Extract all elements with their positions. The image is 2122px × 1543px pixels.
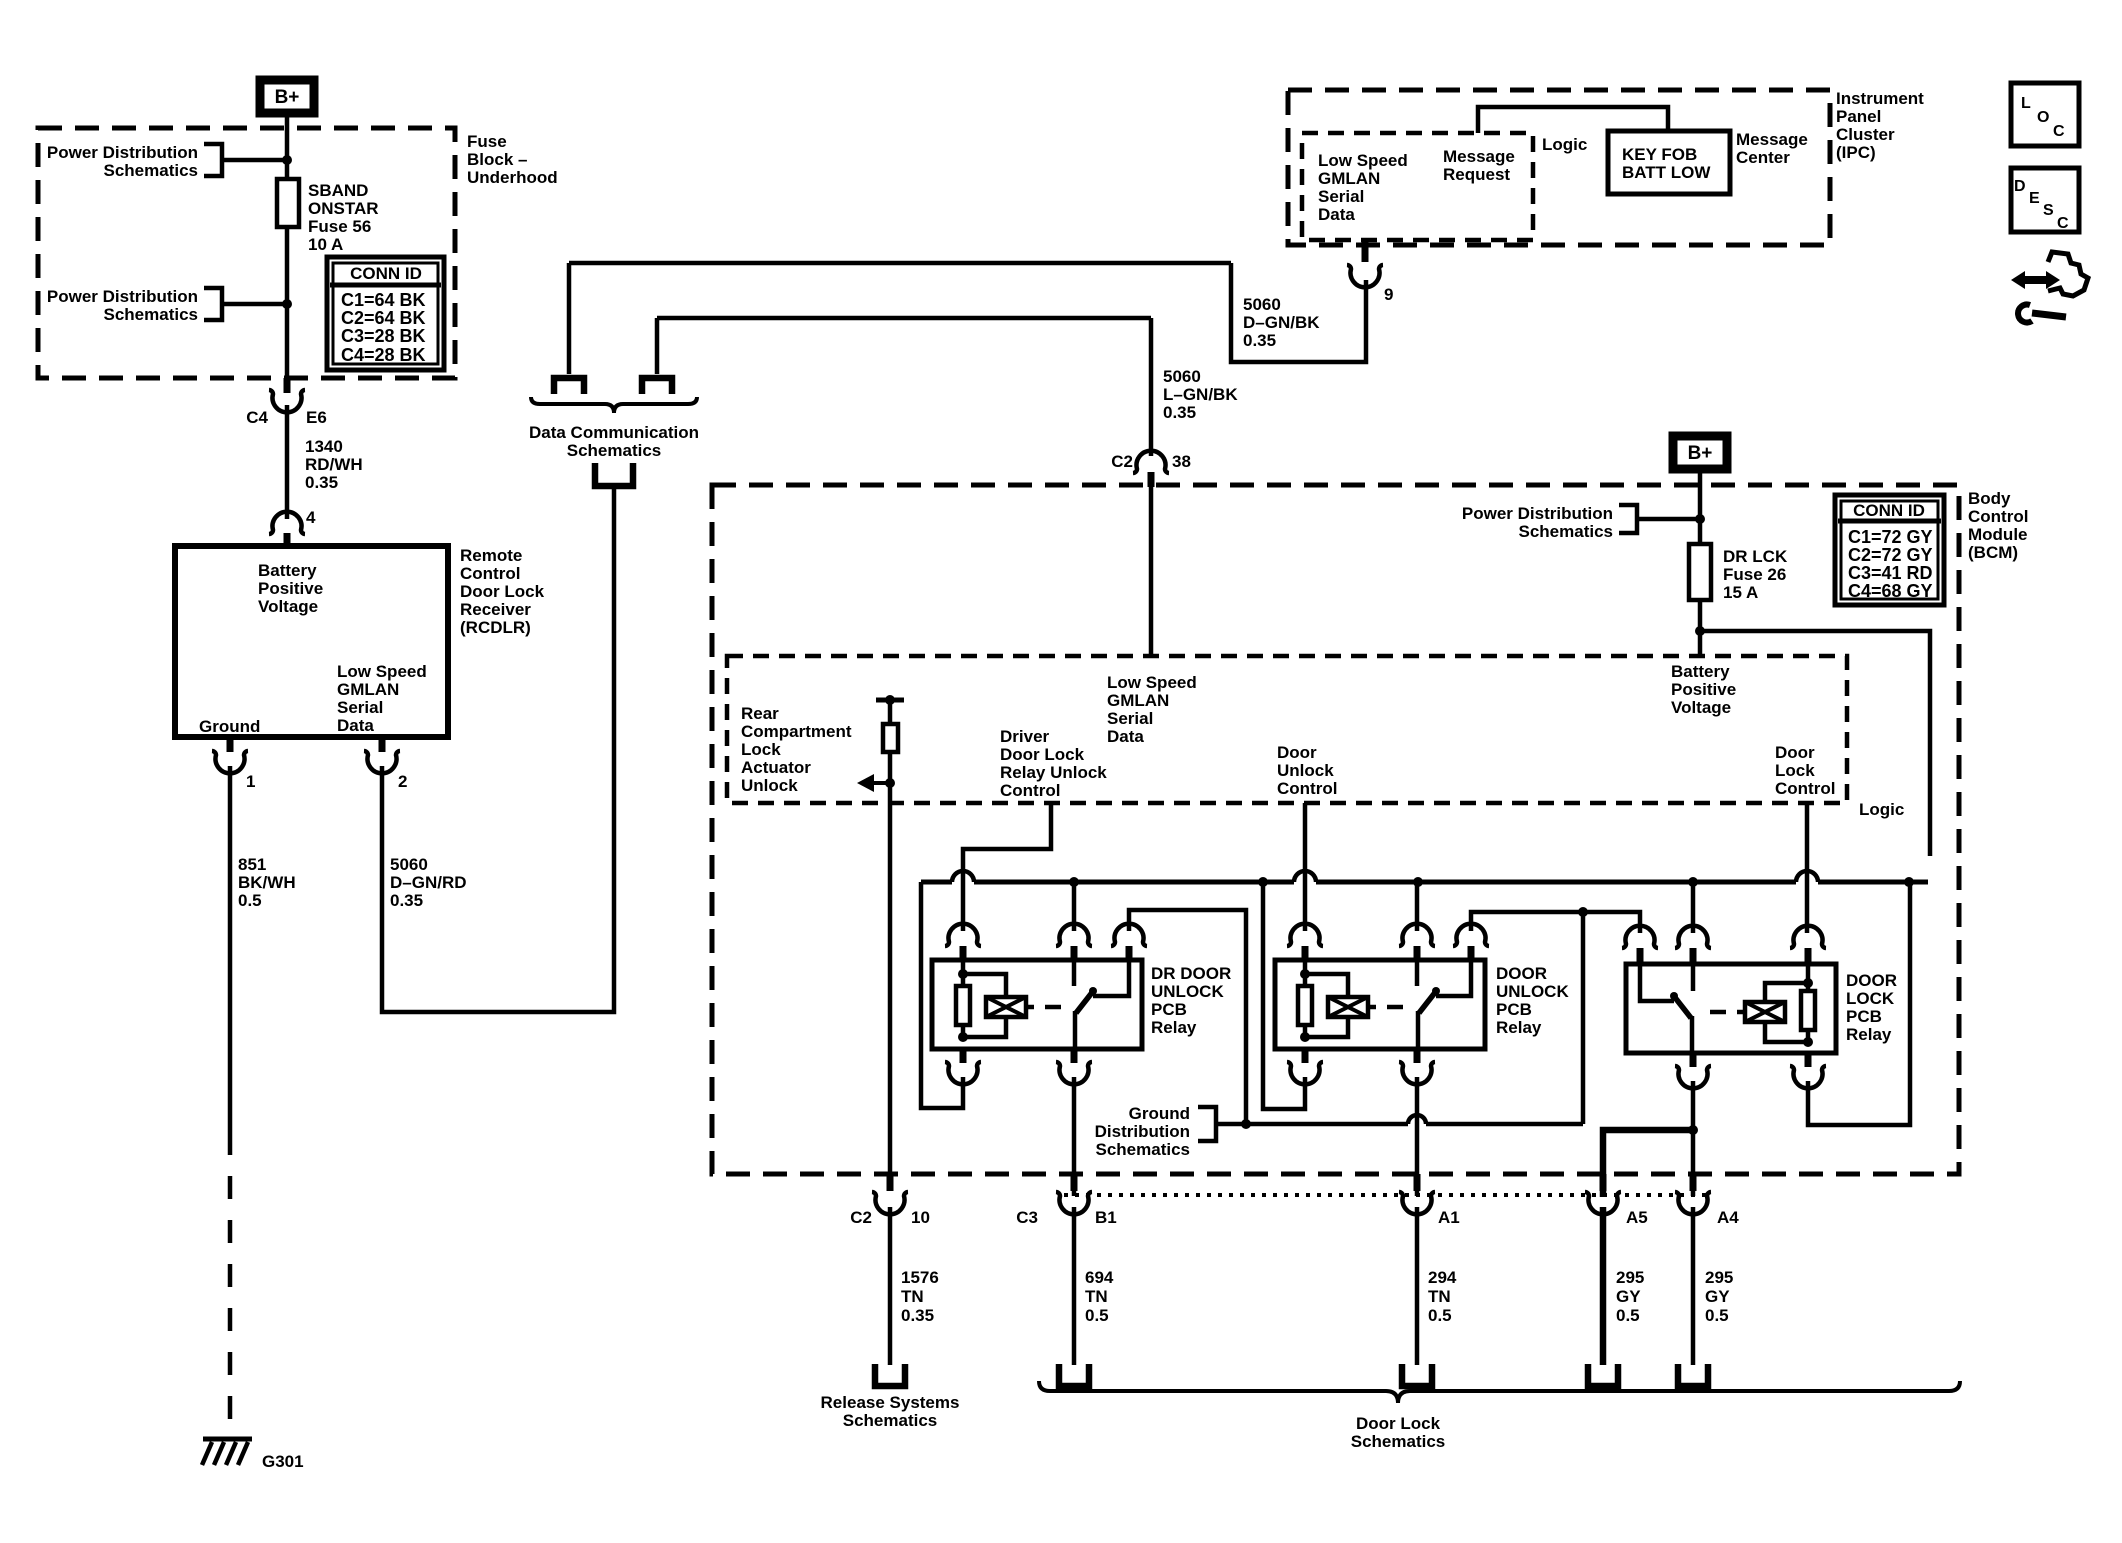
svg-text:Control: Control [460, 564, 520, 583]
svg-text:Power Distribution: Power Distribution [47, 287, 198, 306]
svg-text:295: 295 [1616, 1268, 1644, 1287]
svg-text:UNLOCK: UNLOCK [1496, 982, 1569, 1001]
svg-text:0.5: 0.5 [238, 891, 262, 910]
svg-text:Door: Door [1277, 743, 1317, 762]
svg-text:Underhood: Underhood [467, 168, 558, 187]
svg-text:C3=28 BK: C3=28 BK [341, 326, 426, 346]
svg-text:0.35: 0.35 [1163, 403, 1196, 422]
svg-text:GY: GY [1705, 1287, 1730, 1306]
svg-text:5060: 5060 [1243, 295, 1281, 314]
svg-text:B+: B+ [275, 87, 300, 108]
svg-text:Power Distribution: Power Distribution [1462, 504, 1613, 523]
svg-text:Distribution: Distribution [1095, 1122, 1190, 1141]
svg-text:10: 10 [911, 1208, 930, 1227]
svg-text:Voltage: Voltage [1671, 698, 1731, 717]
svg-text:Receiver: Receiver [460, 600, 531, 619]
svg-text:Positive: Positive [258, 579, 323, 598]
svg-text:0.35: 0.35 [305, 473, 338, 492]
svg-text:ONSTAR: ONSTAR [308, 199, 379, 218]
svg-text:C4=68 GY: C4=68 GY [1848, 581, 1933, 601]
svg-text:Door: Door [1775, 743, 1815, 762]
svg-text:DOOR: DOOR [1846, 971, 1897, 990]
svg-text:Data: Data [337, 716, 374, 735]
svg-text:Logic: Logic [1542, 135, 1587, 154]
svg-text:Data: Data [1318, 205, 1355, 224]
svg-text:Fuse: Fuse [467, 132, 507, 151]
svg-text:Control: Control [1968, 507, 2028, 526]
svg-text:PCB: PCB [1846, 1007, 1882, 1026]
svg-text:Fuse 56: Fuse 56 [308, 217, 371, 236]
svg-text:C3=41 RD: C3=41 RD [1848, 563, 1933, 583]
svg-text:Lock: Lock [741, 740, 781, 759]
svg-text:GMLAN: GMLAN [337, 680, 399, 699]
svg-text:Panel: Panel [1836, 107, 1881, 126]
svg-text:DOOR: DOOR [1496, 964, 1547, 983]
svg-text:E6: E6 [306, 408, 327, 427]
svg-text:5060: 5060 [390, 855, 428, 874]
svg-text:Schematics: Schematics [104, 161, 199, 180]
svg-text:1576: 1576 [901, 1268, 939, 1287]
svg-text:0.5: 0.5 [1616, 1306, 1640, 1325]
svg-text:D–GN/BK: D–GN/BK [1243, 313, 1320, 332]
svg-text:L–GN/BK: L–GN/BK [1163, 385, 1238, 404]
svg-text:Instrument: Instrument [1836, 89, 1924, 108]
svg-text:Low Speed: Low Speed [1107, 673, 1197, 692]
svg-text:(IPC): (IPC) [1836, 143, 1876, 162]
svg-text:C4: C4 [246, 408, 268, 427]
svg-text:4: 4 [306, 508, 316, 527]
svg-text:CONN ID: CONN ID [1853, 501, 1925, 520]
svg-text:A5: A5 [1626, 1208, 1648, 1227]
svg-text:Relay: Relay [1846, 1025, 1892, 1044]
svg-text:Control: Control [1000, 781, 1060, 800]
svg-text:C2: C2 [850, 1208, 872, 1227]
svg-text:C: C [2053, 123, 2065, 140]
svg-text:Voltage: Voltage [258, 597, 318, 616]
svg-text:UNLOCK: UNLOCK [1151, 982, 1224, 1001]
svg-text:0.5: 0.5 [1705, 1306, 1729, 1325]
svg-text:295: 295 [1705, 1268, 1733, 1287]
svg-text:B1: B1 [1095, 1208, 1117, 1227]
svg-text:Battery: Battery [258, 561, 317, 580]
svg-text:Unlock: Unlock [741, 776, 798, 795]
svg-text:TN: TN [1085, 1287, 1108, 1306]
svg-text:Block –: Block – [467, 150, 527, 169]
svg-text:Cluster: Cluster [1836, 125, 1895, 144]
svg-text:Fuse 26: Fuse 26 [1723, 565, 1786, 584]
svg-text:Door Lock: Door Lock [1356, 1414, 1441, 1433]
svg-text:D: D [2014, 178, 2026, 195]
svg-text:Data Communication: Data Communication [529, 423, 699, 442]
svg-text:Schematics: Schematics [567, 441, 662, 460]
svg-text:Power Distribution: Power Distribution [47, 143, 198, 162]
svg-text:Request: Request [1443, 165, 1510, 184]
svg-text:Lock: Lock [1775, 761, 1815, 780]
svg-text:Door Lock: Door Lock [460, 582, 545, 601]
svg-text:SBAND: SBAND [308, 181, 368, 200]
svg-text:Control: Control [1775, 779, 1835, 798]
svg-text:C2=64 BK: C2=64 BK [341, 308, 426, 328]
svg-text:851: 851 [238, 855, 266, 874]
svg-text:2: 2 [398, 772, 407, 791]
svg-text:GMLAN: GMLAN [1318, 169, 1380, 188]
svg-text:0.35: 0.35 [901, 1306, 934, 1325]
svg-text:Battery: Battery [1671, 662, 1730, 681]
svg-text:Ground: Ground [1129, 1104, 1190, 1123]
svg-text:Relay: Relay [1151, 1018, 1197, 1037]
svg-text:CONN ID: CONN ID [350, 264, 422, 283]
svg-text:Release Systems: Release Systems [821, 1393, 960, 1412]
svg-text:Low Speed: Low Speed [1318, 151, 1408, 170]
svg-text:C3: C3 [1016, 1208, 1038, 1227]
svg-text:L: L [2021, 95, 2031, 112]
svg-text:Relay Unlock: Relay Unlock [1000, 763, 1107, 782]
svg-text:0.5: 0.5 [1428, 1306, 1452, 1325]
svg-text:C2=72 GY: C2=72 GY [1848, 545, 1933, 565]
svg-text:PCB: PCB [1151, 1000, 1187, 1019]
svg-text:Remote: Remote [460, 546, 522, 565]
svg-text:Logic: Logic [1859, 800, 1904, 819]
svg-text:RD/WH: RD/WH [305, 455, 363, 474]
svg-text:Module: Module [1968, 525, 2028, 544]
svg-text:A1: A1 [1438, 1208, 1460, 1227]
svg-text:694: 694 [1085, 1268, 1114, 1287]
svg-text:Schematics: Schematics [1519, 522, 1614, 541]
svg-text:BATT LOW: BATT LOW [1622, 163, 1711, 182]
svg-text:15 A: 15 A [1723, 583, 1758, 602]
svg-text:Door Lock: Door Lock [1000, 745, 1085, 764]
svg-text:E: E [2029, 190, 2040, 207]
svg-text:GMLAN: GMLAN [1107, 691, 1169, 710]
svg-text:G301: G301 [262, 1452, 304, 1471]
svg-text:Control: Control [1277, 779, 1337, 798]
svg-text:0.35: 0.35 [390, 891, 423, 910]
svg-text:Body: Body [1968, 489, 2011, 508]
svg-text:Driver: Driver [1000, 727, 1050, 746]
svg-text:Positive: Positive [1671, 680, 1736, 699]
svg-text:Serial: Serial [337, 698, 383, 717]
svg-text:PCB: PCB [1496, 1000, 1532, 1019]
svg-text:BK/WH: BK/WH [238, 873, 296, 892]
svg-text:Ground: Ground [199, 717, 260, 736]
svg-text:(BCM): (BCM) [1968, 543, 2018, 562]
svg-text:TN: TN [901, 1287, 924, 1306]
svg-text:Serial: Serial [1318, 187, 1364, 206]
svg-text:C1=72 GY: C1=72 GY [1848, 527, 1933, 547]
svg-text:Relay: Relay [1496, 1018, 1542, 1037]
svg-text:LOCK: LOCK [1846, 989, 1895, 1008]
svg-text:Center: Center [1736, 148, 1790, 167]
svg-text:DR DOOR: DR DOOR [1151, 964, 1231, 983]
svg-text:B+: B+ [1688, 443, 1713, 464]
svg-text:GY: GY [1616, 1287, 1641, 1306]
svg-text:0.5: 0.5 [1085, 1306, 1109, 1325]
svg-text:(RCDLR): (RCDLR) [460, 618, 531, 637]
svg-text:Schematics: Schematics [104, 305, 199, 324]
svg-text:Schematics: Schematics [1096, 1140, 1191, 1159]
svg-text:Data: Data [1107, 727, 1144, 746]
svg-text:S: S [2043, 202, 2054, 219]
svg-text:Serial: Serial [1107, 709, 1153, 728]
svg-text:A4: A4 [1717, 1208, 1739, 1227]
svg-text:Schematics: Schematics [843, 1411, 938, 1430]
svg-text:KEY FOB: KEY FOB [1622, 145, 1697, 164]
svg-text:Actuator: Actuator [741, 758, 811, 777]
svg-text:38: 38 [1172, 452, 1191, 471]
svg-text:0.35: 0.35 [1243, 331, 1276, 350]
svg-text:C4=28 BK: C4=28 BK [341, 345, 426, 365]
svg-text:C1=64 BK: C1=64 BK [341, 290, 426, 310]
svg-text:Schematics: Schematics [1351, 1432, 1446, 1451]
svg-text:D–GN/RD: D–GN/RD [390, 873, 467, 892]
svg-text:O: O [2037, 109, 2049, 126]
svg-text:Unlock: Unlock [1277, 761, 1334, 780]
svg-text:1340: 1340 [305, 437, 343, 456]
svg-text:C: C [2057, 215, 2069, 232]
svg-text:1: 1 [246, 772, 255, 791]
svg-text:5060: 5060 [1163, 367, 1201, 386]
svg-text:DR LCK: DR LCK [1723, 547, 1788, 566]
svg-text:Compartment: Compartment [741, 722, 852, 741]
svg-text:Message: Message [1443, 147, 1515, 166]
svg-text:Message: Message [1736, 130, 1808, 149]
svg-text:Rear: Rear [741, 704, 779, 723]
svg-text:TN: TN [1428, 1287, 1451, 1306]
svg-text:C2: C2 [1111, 452, 1133, 471]
svg-text:Low Speed: Low Speed [337, 662, 427, 681]
svg-text:10 A: 10 A [308, 235, 343, 254]
svg-text:9: 9 [1384, 285, 1393, 304]
svg-text:294: 294 [1428, 1268, 1457, 1287]
